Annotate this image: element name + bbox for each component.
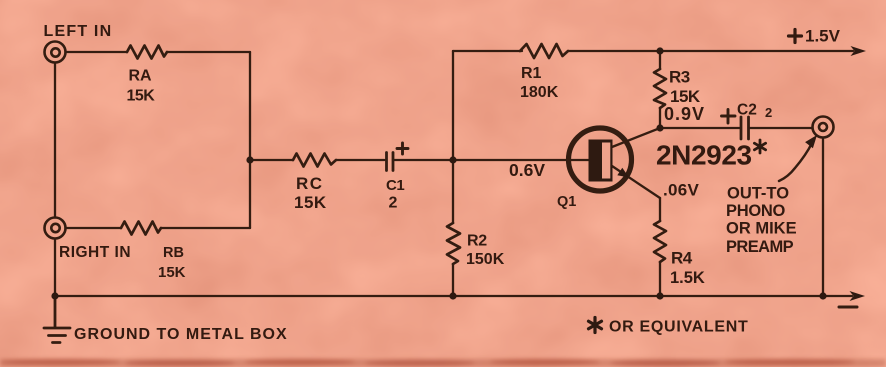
svg-text:R2: R2 <box>467 233 487 250</box>
wire: RB to vertical <box>161 227 250 229</box>
wire: C2 to OUT terminal <box>749 127 813 129</box>
label C1 value <box>386 177 404 212</box>
arrowhead of +1.5V rail <box>851 46 867 56</box>
svg-text:180K: 180K <box>520 84 559 101</box>
wire: RC to C1 <box>336 159 385 161</box>
svg-text:.06V: .06V <box>663 181 700 200</box>
wire: vertical x=453 upper <box>452 51 454 223</box>
svg-text:C2: C2 <box>737 102 757 119</box>
label R1 value <box>520 65 559 101</box>
battery minus tick <box>839 306 857 309</box>
resistor R4 <box>654 221 666 296</box>
curved arrow to OUT terminal <box>779 135 817 181</box>
svg-text:RIGHT IN: RIGHT IN <box>59 244 131 261</box>
junction node dots <box>51 47 826 299</box>
resistor RB <box>121 222 161 235</box>
label RA value <box>127 68 156 105</box>
plus sign of C1 <box>397 143 408 154</box>
label RB value <box>158 245 186 281</box>
resistor R2 <box>447 223 460 264</box>
resistor R3 <box>654 51 666 128</box>
terminal RIGHT IN <box>45 218 66 239</box>
red print smudge band at bottom <box>0 359 886 367</box>
label OUT-TO PHONO OR MIKE PREAMP <box>726 185 797 257</box>
transistor Q1 <box>569 128 661 198</box>
svg-text:1.5V: 1.5V <box>805 27 841 46</box>
asterisk after 2N2923 <box>754 140 765 153</box>
label R2 value <box>466 233 505 269</box>
svg-text:1.5K: 1.5K <box>670 269 705 287</box>
svg-text:PREAMP: PREAMP <box>726 238 794 256</box>
svg-text:LEFT IN: LEFT IN <box>44 23 113 40</box>
svg-text:GROUND TO METAL BOX: GROUND TO METAL BOX <box>74 326 288 343</box>
wire: RIGHT IN terminal to RB <box>66 227 122 229</box>
arrowhead of bottom rail <box>850 291 866 301</box>
svg-text:0.9V: 0.9V <box>664 104 705 124</box>
terminal OUT <box>813 117 834 138</box>
svg-text:RA: RA <box>129 68 153 85</box>
svg-text:15K: 15K <box>294 193 327 212</box>
label C2 value <box>737 102 772 121</box>
svg-text:RB: RB <box>163 245 184 261</box>
svg-text:R4: R4 <box>671 249 693 268</box>
wire: C1 to node <box>393 159 453 161</box>
label RC value <box>294 174 327 212</box>
svg-text:RC: RC <box>296 174 324 193</box>
resistor RC <box>293 154 336 167</box>
wire: collector node to C2 <box>660 127 740 129</box>
wire: RA to top corner <box>167 51 250 53</box>
wire: top rail left of R1 <box>453 50 522 52</box>
wire: junction to RC <box>250 159 293 161</box>
wire: OUT terminal down to bottom rail <box>822 138 824 297</box>
svg-text:Q1: Q1 <box>557 194 576 210</box>
wire: emitter down to R4 <box>659 198 661 221</box>
svg-text:15K: 15K <box>158 264 186 281</box>
svg-text:OR MIKE: OR MIKE <box>726 220 797 238</box>
plus sign of C2 <box>722 110 736 124</box>
svg-text:2N2923: 2N2923 <box>656 140 752 171</box>
svg-text:R3: R3 <box>669 68 690 87</box>
label R4 value <box>670 249 705 288</box>
wire: LEFT IN terminal to RA <box>66 51 128 53</box>
label R3 value <box>669 68 701 107</box>
wire: top rail right of R1 to +1.5V arrow <box>568 50 853 52</box>
wire: base wire node to Q1 <box>453 159 589 161</box>
wire: left vertical upper <box>54 63 56 218</box>
capacitor C2 <box>741 117 749 139</box>
terminal LEFT IN <box>45 42 66 63</box>
wire: left vertical lower <box>54 239 56 297</box>
wire: R2 to bottom rail <box>452 264 454 296</box>
bottom rail wire <box>55 295 852 297</box>
svg-text:C1: C1 <box>386 177 404 194</box>
resistor R1 <box>520 44 568 58</box>
capacitor C1 <box>387 153 394 171</box>
ground symbol <box>44 296 70 343</box>
svg-text:2: 2 <box>765 105 772 120</box>
svg-text:OUT-TO: OUT-TO <box>727 185 789 203</box>
svg-text:2: 2 <box>389 195 398 212</box>
svg-text:PHONO: PHONO <box>726 202 785 220</box>
asterisk of footnote <box>589 318 602 333</box>
svg-text:OR EQUIVALENT: OR EQUIVALENT <box>609 319 748 336</box>
wire: vertical x=250 <box>249 52 251 228</box>
label +1.5V <box>789 27 841 46</box>
resistor RA <box>127 46 167 59</box>
svg-text:150K: 150K <box>466 251 505 268</box>
svg-text:15K: 15K <box>127 88 156 105</box>
svg-text:R1: R1 <box>521 65 542 82</box>
svg-text:0.6V: 0.6V <box>509 160 545 180</box>
